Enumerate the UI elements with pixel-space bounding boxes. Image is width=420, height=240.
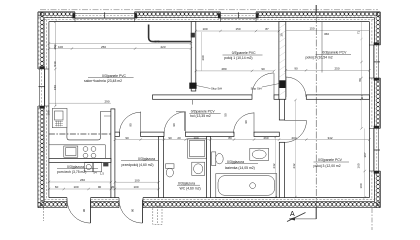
svg-text:280: 280	[221, 67, 226, 71]
svg-text:łazienka (14,05 m2): łazienka (14,05 m2)	[225, 166, 255, 170]
svg-text:1,5: 1,5	[100, 172, 104, 176]
svg-text:100: 100	[359, 183, 363, 188]
svg-text:150: 150	[309, 27, 314, 31]
svg-text:360: 360	[324, 32, 329, 36]
svg-text:A: A	[290, 211, 295, 218]
svg-text:160: 160	[357, 163, 361, 168]
svg-text:90: 90	[244, 120, 248, 124]
svg-text:150: 150	[235, 27, 240, 31]
svg-text:260: 260	[263, 136, 268, 140]
svg-text:71: 71	[356, 31, 360, 35]
svg-text:Słup StH: Słup StH	[211, 87, 222, 91]
svg-text:100: 100	[202, 27, 207, 31]
svg-text:0/3)glazura: 0/3)glazura	[138, 157, 155, 161]
svg-text:50: 50	[224, 113, 228, 117]
svg-text:100: 100	[73, 185, 78, 189]
svg-text:90: 90	[261, 67, 265, 71]
svg-text:pokój 1 (10,14 m2): pokój 1 (10,14 m2)	[224, 56, 252, 60]
svg-text:hol (13,35 m2: hol (13,35 m2	[190, 114, 211, 118]
svg-text:90: 90	[294, 67, 298, 71]
svg-text:80: 80	[228, 136, 232, 140]
svg-text:242: 242	[272, 163, 276, 168]
svg-text:100: 100	[193, 136, 198, 140]
svg-text:0/3)panele PCV: 0/3)panele PCV	[322, 50, 347, 54]
svg-text:223: 223	[160, 45, 165, 49]
svg-text:290: 290	[104, 99, 109, 103]
svg-text:pokój 3 (12,00 m2: pokój 3 (12,00 m2	[314, 164, 341, 168]
svg-text:290: 290	[201, 55, 205, 60]
svg-text:20: 20	[177, 136, 181, 140]
svg-text:pom.tech (3,75 m2): pom.tech (3,75 m2)	[57, 170, 86, 174]
svg-text:90: 90	[125, 136, 129, 140]
svg-text:90: 90	[172, 123, 176, 127]
svg-text:90: 90	[131, 209, 135, 213]
svg-text:60: 60	[55, 185, 59, 189]
svg-text:342: 342	[327, 136, 332, 140]
svg-text:0/3)panele PVC: 0/3)panele PVC	[232, 51, 256, 55]
svg-text:90: 90	[129, 123, 133, 127]
svg-text:0/3)glazura: 0/3)glazura	[227, 160, 244, 164]
svg-text:290: 290	[53, 44, 57, 49]
svg-text:100: 100	[47, 110, 51, 115]
svg-text:150: 150	[53, 85, 57, 90]
svg-text:540: 540	[53, 61, 57, 66]
svg-text:90: 90	[168, 136, 172, 140]
svg-text:250: 250	[101, 45, 106, 49]
svg-text:90: 90	[98, 185, 102, 189]
svg-text:242: 242	[292, 163, 296, 168]
svg-text:54: 54	[93, 171, 97, 175]
svg-text:90: 90	[82, 209, 86, 213]
svg-text:20: 20	[111, 185, 115, 189]
svg-text:salon+kuchnia (23,48 m2: salon+kuchnia (23,48 m2	[84, 79, 122, 83]
svg-text:Słup StH: Słup StH	[251, 87, 262, 91]
svg-text:100: 100	[58, 45, 63, 49]
svg-text:100: 100	[134, 178, 139, 182]
svg-text:260: 260	[80, 178, 85, 182]
svg-text:204: 204	[291, 136, 296, 140]
svg-text:100: 100	[133, 185, 138, 189]
svg-text:0/3)glazura: 0/3)glazura	[178, 182, 195, 186]
svg-text:pokój 2 (10,54 m2: pokój 2 (10,54 m2	[306, 55, 333, 59]
svg-text:387: 387	[363, 152, 367, 157]
svg-text:WC (4,60 m2): WC (4,60 m2)	[180, 186, 201, 190]
svg-text:przedpokój (4,60 m2): przedpokój (4,60 m2)	[122, 163, 154, 167]
svg-text:0/3)panele PCV: 0/3)panele PCV	[318, 158, 343, 162]
svg-text:0/3)glazura: 0/3)glazura	[67, 165, 84, 169]
svg-text:250: 250	[334, 67, 339, 71]
svg-text:87: 87	[265, 27, 269, 31]
svg-text:36: 36	[279, 33, 283, 37]
svg-text:573: 573	[154, 40, 159, 44]
